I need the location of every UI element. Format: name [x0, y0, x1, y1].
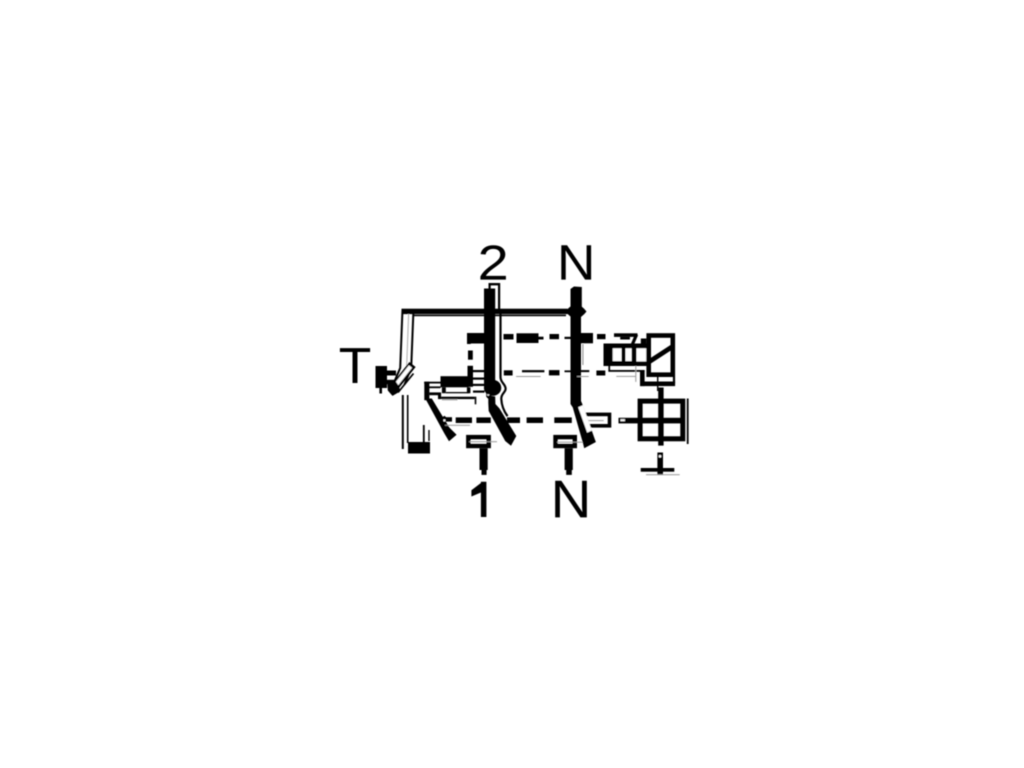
N pole conductor scan double-line: [582, 344, 583, 365]
N junction node (filled diamond): [566, 304, 587, 320]
test circuit wire lower (double line): [403, 395, 408, 449]
pole 2 scan double-line with S-wiggle at contact: [501, 310, 508, 416]
N pole conductor (junction down to contact): [571, 316, 582, 403]
pole 1 fixed contact block: [441, 376, 469, 387]
terminal label N (top): [561, 245, 591, 279]
test circuit wire upper (double line from bus): [392, 309, 413, 387]
pole 1 moving contact blade: [488, 396, 516, 446]
terminal 1 stub: [480, 448, 488, 475]
middle dashed linkage line: [504, 370, 606, 377]
test circuit corner block: [408, 425, 430, 454]
test button contact blade (outlined): [387, 365, 413, 396]
terminal label N (bottom): [555, 481, 587, 518]
terminal 2 clamp outline: [489, 283, 501, 310]
terminal 1 clamp: [468, 437, 497, 446]
terminal N (bottom) clamp: [556, 437, 584, 446]
CT connection bar (outlined) from N blade: [582, 414, 609, 425]
test/left pole moving blade: [425, 399, 456, 442]
upper linkage block on pole 2: [467, 333, 484, 344]
earth/flux symbol below CT: [641, 453, 680, 476]
wire: top horizontal bus from test tap to N junction: [402, 309, 568, 317]
trip coil box with diagonal: [649, 336, 673, 375]
trip relay winding (black box with 3 windows): [604, 344, 647, 367]
upper dashed linkage line: [504, 333, 647, 344]
test button label T: [340, 348, 370, 383]
pole 1 fixed contact outline box: [442, 387, 471, 393]
N terminal top bar: [571, 287, 582, 308]
terminal N (bottom) stub: [565, 448, 573, 475]
current transformer core (square with cross): [619, 388, 689, 446]
lower dashed linkage line: [441, 417, 572, 426]
wire: relay to CT: [657, 377, 659, 391]
N pole moving blade (outlined with filled tip): [571, 395, 596, 448]
trip relay flag mark: [614, 333, 638, 346]
terminal label 2: [480, 245, 506, 279]
contact braid steps left of pole 2 bar: [468, 351, 485, 393]
test button T: [376, 366, 397, 394]
tick and white dot where linkage meets left blade: [441, 416, 447, 418]
pole 1 hinge bracket outline: [424, 382, 476, 405]
relay bottom step outline: [608, 366, 675, 386]
pole 2 conductor bar (terminal 2 down to contact): [484, 289, 501, 399]
N pole linkage block: [581, 333, 594, 343]
terminal label 1: [471, 482, 486, 517]
